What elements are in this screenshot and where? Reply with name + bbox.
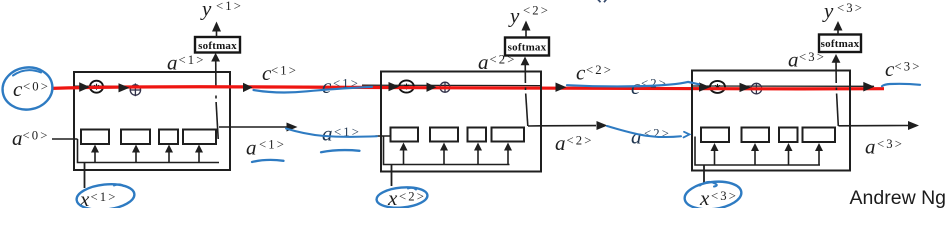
- svg-text:Andrew Ng: Andrew Ng: [850, 187, 946, 208]
- cell 2 a-output wire right: [528, 125, 596, 127]
- arrow before multiply 1: [79, 82, 90, 92]
- svg-text:<2>: <2>: [586, 63, 613, 77]
- svg-text:<1>: <1>: [271, 64, 298, 78]
- svg-text:<2>: <2>: [567, 134, 594, 148]
- softmax box 3: [819, 35, 861, 53]
- cell 2 a-output vertical dash-dot wire to softmax: [525, 60, 528, 127]
- arrow into softmax 3: [832, 54, 841, 63]
- svg-text:a: a: [12, 126, 23, 150]
- cell 3 gate rectangles: [701, 128, 835, 143]
- blue pen a-line continuation cell1 to cell2: [286, 129, 377, 137]
- svg-text:<1>: <1>: [216, 0, 243, 13]
- cell 2 box: [381, 72, 541, 172]
- blue circle around c<0>: [0, 64, 55, 113]
- svg-text:<2>: <2>: [490, 53, 517, 67]
- svg-text:<3>: <3>: [877, 137, 904, 151]
- blue pen stroke after c<3> arrow: [882, 84, 920, 86]
- svg-text:softmax: softmax: [198, 40, 237, 52]
- cell 3 a-output vertical dash-dot wire to softmax: [836, 57, 838, 126]
- arrow softmax 2 to y: [525, 30, 527, 38]
- cell 3 a-output wire right: [839, 125, 909, 127]
- red c-line (marker): [52, 87, 884, 89]
- svg-text:<0>: <0>: [23, 129, 50, 143]
- cut-off x annotation at top edge: [598, 0, 608, 2]
- arrow softmax 1 to y: [216, 31, 218, 37]
- blue underline under a<1>: [252, 160, 284, 162]
- blue circle around x<3>: [683, 179, 743, 213]
- svg-text:a: a: [246, 136, 257, 160]
- multiply node cell 2: [399, 80, 414, 92]
- svg-text:softmax: softmax: [821, 38, 860, 50]
- softmax box 1: [195, 37, 240, 53]
- arrow softmax 3 to y: [837, 30, 839, 35]
- blue circle around x<1>: [75, 182, 135, 213]
- arrow c2 exit: [556, 83, 567, 92]
- x<2> input wire: [391, 165, 393, 187]
- svg-text:a: a: [167, 51, 178, 75]
- svg-text:<3>: <3>: [799, 50, 826, 64]
- cell 2 internal routing line: [384, 136, 510, 165]
- add node cell 2: [440, 82, 451, 93]
- arrow before multiply 2: [389, 82, 400, 91]
- svg-text:y: y: [822, 0, 834, 23]
- svg-text:<2>: <2>: [523, 4, 550, 18]
- arrow before add 2: [427, 83, 437, 92]
- cell 1 gate input arrows: [95, 151, 199, 163]
- svg-text:<1>: <1>: [179, 53, 206, 67]
- arrow into softmax 1: [211, 53, 220, 62]
- svg-text:a: a: [788, 48, 799, 72]
- svg-text:c: c: [576, 61, 586, 85]
- svg-text:<1>: <1>: [91, 190, 118, 204]
- blue pen c-line continuation cell1 to cell2: [254, 87, 373, 93]
- blue pen c-line continuation cell2 to cell3: [567, 82, 699, 87]
- svg-text:<2>: <2>: [641, 77, 668, 91]
- svg-text:c: c: [322, 74, 332, 98]
- svg-text:y: y: [508, 4, 520, 28]
- svg-text:a: a: [865, 135, 876, 159]
- svg-text:<2>: <2>: [644, 127, 671, 141]
- cell 2 gate rectangles: [391, 128, 525, 142]
- cell 1 internal routing line: [78, 139, 220, 163]
- arrow c1 exit: [243, 83, 253, 92]
- black printed c-wire fragments under red marker: [74, 85, 874, 86]
- svg-text:<3>: <3>: [711, 189, 738, 203]
- multiply node cell 1: [90, 81, 103, 93]
- a<0> input wire: [52, 138, 78, 140]
- svg-text:<0>: <0>: [23, 80, 50, 94]
- cell 3 box: [692, 71, 850, 171]
- svg-text:a: a: [478, 50, 489, 74]
- cell 1 box: [74, 72, 230, 170]
- arrow before multiply 3: [699, 82, 710, 91]
- arrow before add 1: [119, 83, 130, 92]
- add node cell 3: [751, 83, 762, 94]
- x<1> input wire: [84, 163, 86, 189]
- svg-text:x: x: [699, 186, 710, 208]
- a<1> input lead into cell 2: [376, 135, 391, 137]
- arrow into softmax 2: [521, 57, 530, 66]
- cell 2 gate input arrows: [404, 149, 509, 165]
- svg-text:c: c: [885, 57, 895, 81]
- cell 1 gate rectangles: [81, 130, 216, 145]
- arrow c3 exit: [863, 82, 874, 92]
- svg-text:c: c: [13, 77, 23, 101]
- x<3> input wire: [703, 165, 705, 184]
- svg-text:<1>: <1>: [259, 138, 286, 152]
- cell 1 a-output wire right: [219, 126, 287, 128]
- cell 3 internal routing line: [695, 137, 820, 166]
- cell 3 gate input arrows: [715, 150, 820, 166]
- cell 1 a-output vertical dash-dot wire to softmax: [216, 56, 219, 139]
- blue pen a-line continuation cell2 to cell3: [607, 126, 681, 137]
- multiply node cell 3: [710, 81, 725, 93]
- svg-text:a: a: [555, 131, 566, 155]
- svg-text:a: a: [631, 125, 642, 149]
- svg-text:y: y: [200, 0, 212, 21]
- blue underline under second a<1>: [321, 150, 360, 152]
- blue circle around x<2>: [376, 185, 429, 209]
- svg-text:<3>: <3>: [837, 1, 864, 15]
- softmax box 2: [505, 38, 549, 56]
- blue mini arrowhead at cell 3 a-entry: [684, 132, 690, 138]
- svg-text:<3>: <3>: [895, 60, 922, 74]
- svg-text:a: a: [322, 122, 333, 146]
- arrow before add 3: [740, 83, 752, 92]
- add node cell 1: [130, 83, 141, 96]
